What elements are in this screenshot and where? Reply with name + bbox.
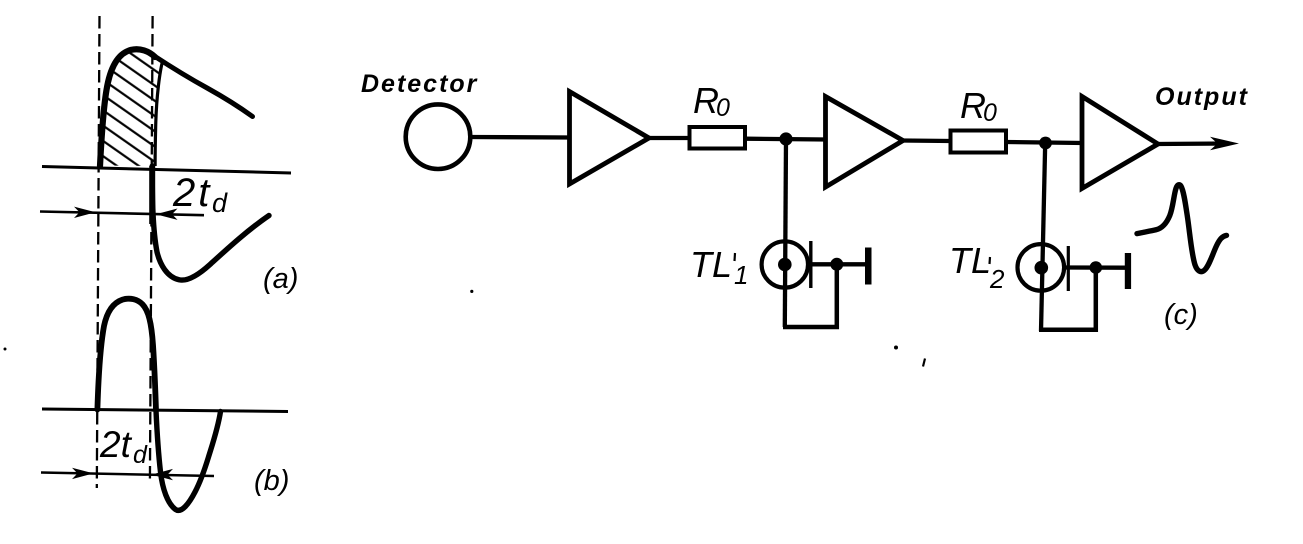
- TL1 feedback loop wire: [783, 264, 837, 327]
- speck below diagram: [894, 346, 898, 350]
- speck near detector: [470, 290, 473, 293]
- dimension arrowhead (a) left, pointing right: [74, 207, 96, 218]
- svg-text:0: 0: [983, 99, 997, 127]
- output wire: [1156, 141, 1228, 146]
- delay line TL2 circle: [1018, 244, 1065, 291]
- junction node 2: [1039, 137, 1052, 150]
- TL2 center dot: [1035, 261, 1049, 275]
- stray apostrophe above TL2 subscript: [988, 257, 991, 264]
- clipped-area right boundary: [155, 60, 163, 167]
- delay line TL1 circle: [762, 241, 808, 287]
- TL1 termination bar: [865, 248, 872, 285]
- svg-text:2: 2: [989, 264, 1005, 294]
- svg-text:1: 1: [734, 260, 748, 290]
- wire node 2 down to TL2: [1041, 143, 1045, 331]
- wire A1 to resistor R1: [647, 136, 691, 140]
- resistor R1 (R0): [690, 127, 746, 149]
- speck at left edge: [4, 348, 7, 351]
- svg-text:0: 0: [716, 94, 730, 122]
- pulse (a) negative lobe: [152, 166, 269, 280]
- pulse (a) decay tail: [154, 56, 253, 117]
- wire A2 to resistor R2: [901, 138, 951, 143]
- dashed line t=0: [97, 16, 100, 488]
- amplifier A1: [570, 92, 650, 185]
- dimension arrowhead (b) left, pointing right: [72, 468, 94, 479]
- detector circle: [406, 104, 471, 169]
- TL1 center dot: [778, 258, 792, 272]
- wire R2 to amplifier A3: [1006, 142, 1083, 143]
- waveform (b) time axis: [42, 409, 288, 412]
- amplifier A2: [826, 97, 904, 188]
- svg-text:(c): (c): [1164, 299, 1198, 331]
- speck apostrophe below diagram: [923, 359, 925, 367]
- dimension line (a): [40, 212, 204, 216]
- hatched clipped area (a): [100, 49, 163, 166]
- pulse (a) positive lobe: [100, 49, 155, 166]
- resistor R2 (R0): [951, 131, 1007, 153]
- TL2 stub wire: [1066, 265, 1126, 270]
- stray apostrophe above TL1 subscript: [733, 253, 736, 261]
- amplifier A3: [1082, 97, 1158, 189]
- svg-text:d: d: [212, 188, 228, 218]
- pulse (b) positive lobe: [97, 299, 156, 411]
- waveform (c) output pulse shape: [1137, 185, 1227, 272]
- TL2 stub junction dot: [1090, 261, 1103, 274]
- dashed line t=2td: [150, 16, 153, 484]
- svg-text:Detector: Detector: [361, 70, 478, 98]
- dimension line (b): [41, 473, 214, 477]
- svg-text:(b): (b): [254, 465, 289, 497]
- pulse (b) negative lobe: [156, 411, 221, 511]
- dimension arrowhead (b) right, pointing left: [151, 469, 173, 480]
- TL1 stub junction dot: [830, 258, 843, 271]
- svg-text:d: d: [133, 441, 148, 469]
- wire detector to amplifier A1: [469, 135, 571, 140]
- wire node 1 down to TL1: [785, 139, 786, 327]
- TL2 termination bar: [1125, 253, 1131, 289]
- junction node 1: [779, 132, 792, 145]
- TL2 right tick: [1067, 246, 1070, 291]
- TL2 feedback loop wire: [1039, 268, 1096, 330]
- svg-text:2t: 2t: [172, 171, 212, 215]
- waveform (a) time axis: [42, 167, 291, 174]
- TL1 right tick: [809, 241, 812, 288]
- svg-text:TL: TL: [949, 240, 991, 281]
- svg-text:TL: TL: [690, 244, 732, 285]
- svg-text:(a): (a): [263, 263, 298, 295]
- dimension arrowhead (a) right, pointing left: [156, 209, 178, 220]
- output arrowhead: [1210, 137, 1239, 150]
- TL1 stub wire: [810, 262, 866, 266]
- svg-text:Output: Output: [1155, 83, 1249, 111]
- wire R1 to amplifier A2: [745, 137, 826, 142]
- svg-text:2t: 2t: [99, 424, 133, 465]
